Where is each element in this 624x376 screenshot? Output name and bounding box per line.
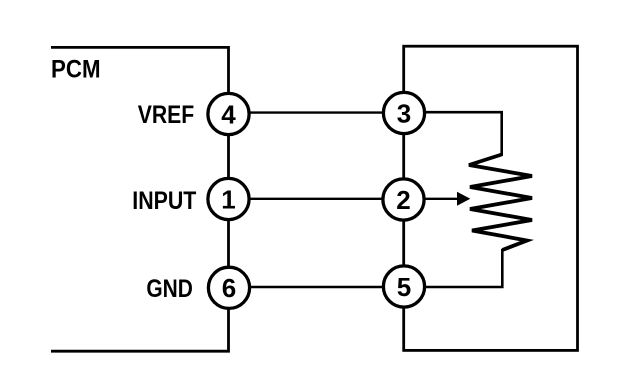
svg-text:PCM: PCM: [51, 55, 101, 83]
PCM module box: [51, 47, 229, 351]
wire GND pin6 to pin5: [229, 286, 404, 288]
svg-text:4: 4: [221, 99, 236, 129]
wiper arrow from pin 2: [424, 192, 470, 206]
pin 6: [208, 267, 249, 308]
wire pin3 to potentiometer top: [404, 112, 502, 156]
wire pin5 to potentiometer bottom: [404, 249, 503, 287]
svg-text:2: 2: [396, 185, 410, 215]
pin 4: [208, 93, 249, 134]
wire INPUT pin1 to pin2: [229, 198, 404, 200]
svg-text:5: 5: [397, 272, 411, 302]
potentiometer resistive element: [469, 155, 532, 251]
pin 1: [208, 178, 249, 219]
svg-text:INPUT: INPUT: [132, 187, 196, 215]
svg-text:6: 6: [222, 273, 236, 303]
pin 5: [383, 266, 424, 307]
pin 3: [383, 92, 424, 133]
svg-text:VREF: VREF: [138, 101, 195, 129]
pin 2: [383, 179, 424, 220]
svg-text:1: 1: [221, 184, 235, 214]
svg-text:3: 3: [397, 98, 411, 128]
wire VREF pin4 to pin3: [229, 111, 404, 113]
svg-text:GND: GND: [146, 275, 193, 303]
sensor box: [404, 46, 578, 350]
